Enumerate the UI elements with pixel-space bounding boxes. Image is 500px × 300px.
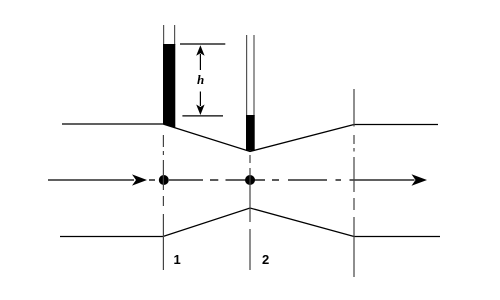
svg-text:1: 1 [174, 252, 181, 267]
svg-text:h: h [197, 72, 204, 87]
svg-text:2: 2 [262, 252, 269, 267]
